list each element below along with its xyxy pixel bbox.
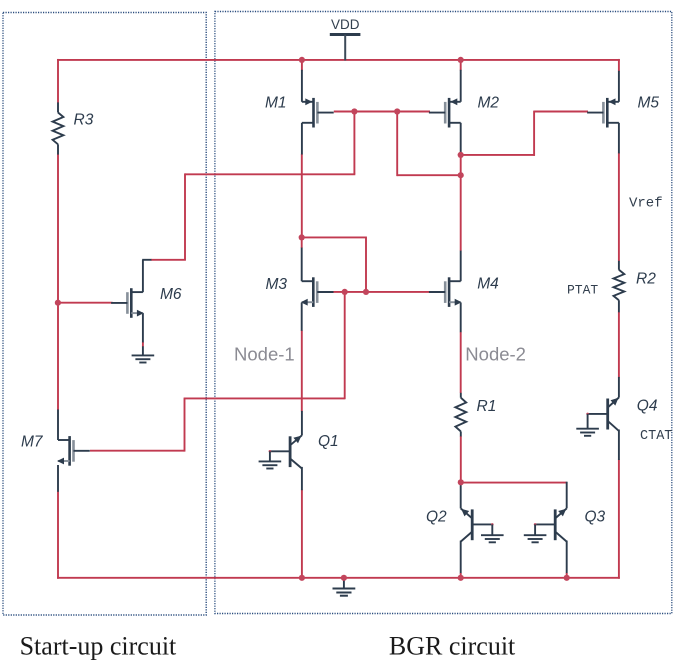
svg-text:Q1: Q1 xyxy=(318,433,339,450)
wire Node-1: M3 source down to Q1 xyxy=(301,330,303,411)
wire M7 gate net: horizontal into M7 gate xyxy=(90,450,185,452)
wire M2 diode tap horizontal to M2 drain xyxy=(397,174,461,176)
pmos M2 xyxy=(429,70,461,154)
VDD label xyxy=(331,17,360,32)
wire M5 gate elbow horizontal y=111.5 xyxy=(534,111,588,113)
label M2 xyxy=(478,95,500,112)
wire M2 drain column down to M4 drain xyxy=(460,154,462,251)
junction dot ground rail at Q3 xyxy=(564,575,570,581)
label Q4 xyxy=(637,398,658,415)
label Q3 xyxy=(585,509,606,526)
svg-text:CTAT: CTAT xyxy=(640,429,672,444)
pmos M1 xyxy=(302,70,334,155)
junction dot gate rail x=354.4 xyxy=(351,108,357,114)
svg-text:Vref: Vref xyxy=(629,196,663,212)
resistor R3 xyxy=(53,102,64,154)
wire M3/M4 gate rail xyxy=(332,291,429,293)
label M7 xyxy=(21,434,44,451)
bjt Q3 xyxy=(555,482,567,577)
svg-text:M1: M1 xyxy=(265,95,287,112)
svg-text:M7: M7 xyxy=(21,434,44,451)
wire R1 bottom to Node-2 junction xyxy=(460,436,462,483)
wire M6 source to ground lead xyxy=(142,346,144,355)
wire M2 drain to M5 gate: horizontal y=155 xyxy=(461,154,535,156)
junction dot ground rail at Q2 xyxy=(458,575,464,581)
wire start-up tap vertical x=185 xyxy=(184,173,186,259)
svg-text:Q3: Q3 xyxy=(585,509,606,526)
junction dot M2 drain y=175.2 xyxy=(458,172,464,178)
ground at Q1 base xyxy=(259,461,282,468)
Q1 base lead xyxy=(269,450,291,461)
junction dot VDD rail at M1 xyxy=(299,57,305,63)
VDD supply bar symbol xyxy=(330,35,361,61)
svg-text:Start-up circuit: Start-up circuit xyxy=(20,632,177,661)
wire M7 gate net: gate rail down at x=344.7 xyxy=(344,292,346,399)
svg-text:Node-2: Node-2 xyxy=(465,344,526,365)
junction dot M3/M4 gate rail x=366 xyxy=(363,289,369,295)
svg-text:R3: R3 xyxy=(74,112,94,129)
wire left rail upper segment (VDD to R3) xyxy=(57,59,59,103)
svg-text:M5: M5 xyxy=(638,95,660,112)
nmos M6 xyxy=(111,260,151,343)
wire M7 gate net: vertical x=184.5 xyxy=(184,398,186,451)
svg-text:R2: R2 xyxy=(636,271,656,288)
label M4 xyxy=(477,276,499,293)
svg-text:M3: M3 xyxy=(266,276,288,293)
label R3 xyxy=(74,112,94,129)
wire R2 bottom to Q4 xyxy=(618,312,620,378)
wire M5 gate elbow vertical x=534 xyxy=(533,111,535,156)
svg-text:M6: M6 xyxy=(160,286,182,303)
wire M2 diode tap: gate rail down at x=397 xyxy=(396,112,398,177)
bjt Q4 xyxy=(608,377,619,460)
Q2 base lead xyxy=(472,523,493,535)
svg-text:Q4: Q4 xyxy=(637,398,658,415)
wire M5 source down to R2 (Vref) xyxy=(618,153,620,261)
junction dot VDD rail at M2 xyxy=(458,57,464,63)
wire start-up tap horizontal y=174 xyxy=(185,173,355,175)
wire start-up tap: gate rail down at x=354 xyxy=(353,112,355,175)
junction dot gate rail x=397.2 xyxy=(394,108,400,114)
node label Node-2 xyxy=(465,344,526,365)
wire M3 diode: dot right to x=366 xyxy=(302,236,367,238)
svg-text:M2: M2 xyxy=(478,95,500,112)
wire to M6 drain horizontal y=260 xyxy=(151,259,186,261)
svg-text:R1: R1 xyxy=(477,398,497,415)
ground at bottom rail xyxy=(333,578,356,596)
wire Q4 emitter down to ground rail xyxy=(618,460,620,579)
label Q1 xyxy=(318,433,339,450)
bjt Q1 xyxy=(290,411,302,490)
svg-text:Q2: Q2 xyxy=(426,509,447,526)
net label CTAT xyxy=(640,429,672,444)
nmos M4 xyxy=(429,251,462,333)
start-up circuit boundary (dashed box) xyxy=(3,13,206,616)
svg-text:M4: M4 xyxy=(477,276,499,293)
label Q2 xyxy=(426,509,447,526)
label M5 xyxy=(638,95,660,112)
wire M1 drain down to M3 drain (Node over) xyxy=(301,154,303,238)
wire M3 drain stub below dot xyxy=(301,237,303,248)
wire M6 gate to left rail xyxy=(58,302,113,304)
wire Q2/Q3 base-collector rail y=482.6 xyxy=(461,482,567,484)
junction dot M3/M4 gate rail x=344.7 xyxy=(342,289,348,295)
junction dot ground rail at Q1 xyxy=(299,575,305,581)
bjt Q2 xyxy=(461,483,473,577)
wire M5 drain stub from VDD rail xyxy=(618,59,620,71)
wire M1 drain stub from VDD rail xyxy=(301,60,303,71)
wire Q1 emitter down to ground rail xyxy=(301,490,303,578)
BGR circuit boundary (dashed box) xyxy=(215,12,672,614)
resistor R2 xyxy=(614,261,625,313)
wire M7 gate net: horizontal y=398.4 xyxy=(184,397,345,399)
junction dot left rail at M6 gate xyxy=(55,300,61,306)
label R2 xyxy=(636,271,656,288)
wire M2 drain stub from VDD rail xyxy=(460,60,462,71)
net label PTAT xyxy=(567,282,598,297)
svg-text:BGR circuit: BGR circuit xyxy=(389,632,516,661)
wire VDD top rail xyxy=(57,59,620,61)
caption Start-up circuit xyxy=(20,632,177,661)
junction dot ground rail at center ground xyxy=(341,575,347,581)
junction dot M2 drain y=154.9 xyxy=(458,152,464,158)
wire left rail middle segment (R3 to M7) xyxy=(57,154,59,410)
nmos M7 xyxy=(57,410,90,492)
label M6 xyxy=(160,286,182,303)
junction dot M3 drain y=237.4 xyxy=(299,234,305,240)
wire M3 diode: down to gate rail xyxy=(365,237,367,292)
wire M1/M2 gate rail xyxy=(334,111,430,113)
label R1 xyxy=(477,398,497,415)
Q4 base lead xyxy=(586,413,607,429)
ground below M6 xyxy=(132,355,155,362)
caption BGR circuit xyxy=(389,632,516,661)
svg-text:Node-1: Node-1 xyxy=(234,344,295,365)
ground at Q4 base xyxy=(576,429,599,436)
Q3 base lead xyxy=(534,523,555,535)
svg-text:PTAT: PTAT xyxy=(567,282,598,297)
wire left rail lower segment (M7 source to ground rail) xyxy=(57,491,59,578)
ground at Q2 base xyxy=(481,535,504,542)
wire M6 source red tick xyxy=(142,342,144,347)
svg-text:VDD: VDD xyxy=(331,17,360,32)
ground at Q3 base xyxy=(524,535,547,542)
net label Vref xyxy=(629,196,663,212)
nmos M3 xyxy=(301,248,334,331)
wire bottom ground rail xyxy=(57,577,620,579)
resistor R1 xyxy=(455,393,466,437)
label M3 xyxy=(266,276,288,293)
node label Node-1 xyxy=(234,344,295,365)
wire M4 source down to R1 xyxy=(460,332,462,393)
junction dot Node-2 at R1 bottom xyxy=(458,479,464,485)
pmos M5 xyxy=(587,71,619,154)
label M1 xyxy=(265,95,287,112)
